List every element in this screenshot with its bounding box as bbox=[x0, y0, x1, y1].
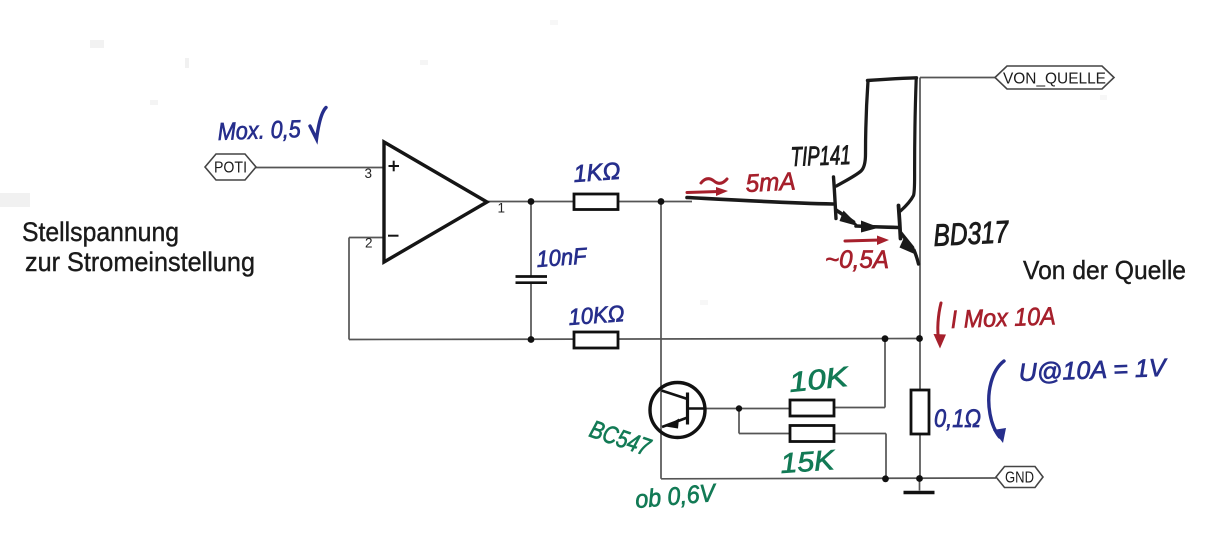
svg-text:15K: 15K bbox=[779, 444, 836, 479]
svg-text:Mox. 0,5: Mox. 0,5 bbox=[217, 116, 301, 146]
svg-text:1KΩ: 1KΩ bbox=[573, 158, 622, 188]
svg-text:3: 3 bbox=[364, 166, 372, 181]
svg-text:VON_QUELLE: VON_QUELLE bbox=[1003, 71, 1106, 88]
svg-text:Von der Quelle: Von der Quelle bbox=[1023, 255, 1186, 285]
svg-text:BD317: BD317 bbox=[933, 214, 1011, 253]
svg-text:0,1Ω: 0,1Ω bbox=[934, 405, 981, 433]
svg-text:TIP141: TIP141 bbox=[790, 140, 851, 172]
svg-text:1: 1 bbox=[498, 201, 506, 216]
svg-text:U@10A = 1V: U@10A = 1V bbox=[1018, 354, 1168, 387]
svg-text:10nF: 10nF bbox=[536, 242, 590, 272]
svg-text:10KΩ: 10KΩ bbox=[568, 300, 626, 330]
svg-text:5mA: 5mA bbox=[745, 167, 796, 198]
svg-text:zur Stromeinstellung: zur Stromeinstellung bbox=[25, 247, 255, 277]
svg-text:~0,5A: ~0,5A bbox=[825, 246, 889, 274]
svg-text:GND: GND bbox=[1005, 470, 1034, 487]
svg-text:2: 2 bbox=[365, 236, 373, 251]
svg-text:POTI: POTI bbox=[214, 160, 247, 177]
svg-text:10K: 10K bbox=[787, 361, 850, 398]
svg-text:I Mox 10A: I Mox 10A bbox=[950, 302, 1056, 334]
svg-text:Stellspannung: Stellspannung bbox=[22, 217, 179, 247]
